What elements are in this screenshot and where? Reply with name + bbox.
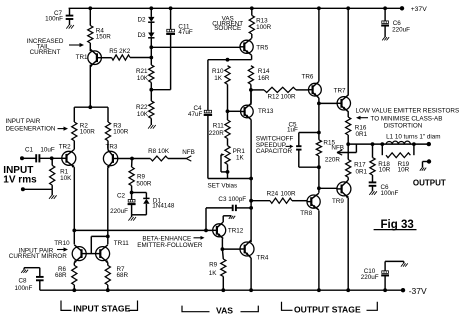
svg-text:+37V: +37V (411, 6, 428, 13)
svg-text:100R: 100R (256, 24, 272, 31)
svg-text:TR8: TR8 (300, 210, 312, 217)
svg-text:R9: R9 (209, 262, 218, 269)
svg-text:150R: 150R (96, 34, 112, 41)
svg-text:100R: 100R (113, 129, 129, 136)
svg-text:1V rms: 1V rms (3, 174, 37, 185)
svg-text:10R: 10R (398, 167, 410, 174)
svg-text:100nF: 100nF (45, 16, 63, 23)
svg-text:-37V: -37V (409, 286, 427, 296)
svg-text:100R: 100R (80, 129, 96, 136)
svg-text:10R: 10R (379, 167, 391, 174)
svg-text:DEGENERATION: DEGENERATION (6, 126, 56, 133)
svg-text:R10: R10 (212, 68, 224, 75)
svg-text:R24: R24 (267, 191, 279, 198)
svg-text:TR3: TR3 (106, 144, 118, 151)
svg-text:SOURCE: SOURCE (214, 25, 241, 32)
svg-text:1K: 1K (214, 75, 223, 82)
svg-text:CAPACITOR: CAPACITOR (256, 148, 293, 155)
svg-text:220uF: 220uF (392, 26, 410, 33)
svg-text:R12: R12 (268, 93, 280, 100)
svg-text:VAS: VAS (216, 305, 233, 315)
svg-text:SET Vbias: SET Vbias (208, 183, 238, 190)
svg-text:220uF: 220uF (110, 208, 128, 215)
svg-text:220R: 220R (325, 156, 341, 163)
svg-text:TR9: TR9 (332, 198, 344, 205)
svg-text:TR7: TR7 (334, 88, 346, 95)
svg-text:100R: 100R (281, 93, 297, 100)
svg-text:R8 10K: R8 10K (148, 148, 170, 155)
svg-text:TR10: TR10 (54, 240, 70, 247)
svg-text:L1 10 turns 1" diam: L1 10 turns 1" diam (386, 133, 440, 140)
svg-text:R14: R14 (258, 68, 270, 75)
svg-text:C3 100pF: C3 100pF (218, 196, 246, 203)
svg-text:0R1: 0R1 (356, 131, 368, 138)
svg-text:68R: 68R (117, 272, 129, 279)
svg-text:CURRENT: CURRENT (30, 49, 61, 56)
svg-text:TR11: TR11 (114, 240, 129, 247)
svg-text:47uF: 47uF (178, 29, 193, 36)
svg-text:1K: 1K (209, 270, 218, 277)
svg-text:16R: 16R (258, 75, 270, 82)
svg-text:TR1: TR1 (76, 54, 88, 61)
svg-text:OUTPUT STAGE: OUTPUT STAGE (294, 304, 361, 314)
svg-text:C1: C1 (25, 147, 34, 154)
svg-text:100R: 100R (281, 191, 297, 198)
svg-text:47uF: 47uF (188, 111, 203, 118)
svg-text:OUTPUT: OUTPUT (413, 179, 446, 188)
svg-text:R21: R21 (136, 68, 148, 75)
svg-text:10K: 10K (137, 75, 149, 82)
svg-text:TR13: TR13 (258, 108, 274, 115)
svg-text:100nF: 100nF (15, 285, 33, 292)
svg-text:D2: D2 (137, 17, 146, 24)
svg-text:TR5: TR5 (256, 44, 268, 51)
svg-text:LOW VALUE EMITTER RESISTORS: LOW VALUE EMITTER RESISTORS (356, 108, 460, 115)
svg-text:0R1: 0R1 (356, 168, 368, 175)
svg-text:100nF: 100nF (381, 190, 399, 197)
svg-text:10K: 10K (60, 175, 72, 182)
svg-text:220R: 220R (209, 130, 225, 137)
svg-text:TR6: TR6 (302, 74, 314, 81)
svg-text:68R: 68R (55, 272, 67, 279)
svg-text:TR12: TR12 (228, 228, 244, 235)
svg-text:1N4148: 1N4148 (152, 202, 175, 209)
svg-text:1uF: 1uF (287, 127, 298, 134)
svg-text:R11: R11 (213, 123, 225, 130)
svg-text:DISTORTION: DISTORTION (384, 123, 423, 130)
svg-text:TR4: TR4 (257, 254, 269, 261)
svg-text:INPUT PAIR: INPUT PAIR (6, 118, 41, 125)
svg-text:R5 2K2: R5 2K2 (109, 48, 131, 55)
svg-text:C2: C2 (117, 193, 126, 200)
svg-text:220uF: 220uF (361, 274, 379, 281)
svg-text:1K: 1K (236, 155, 245, 162)
svg-text:TO MINIMISE CLASS-AB: TO MINIMISE CLASS-AB (371, 115, 443, 122)
svg-text:500R: 500R (136, 180, 152, 187)
svg-text:C8: C8 (19, 278, 28, 285)
svg-text:TR2: TR2 (59, 143, 71, 150)
svg-text:EMITTER-FOLLOWER: EMITTER-FOLLOWER (137, 242, 203, 249)
svg-text:10uF: 10uF (40, 147, 55, 154)
svg-text:10K: 10K (137, 111, 149, 118)
svg-text:R22: R22 (136, 104, 148, 111)
svg-text:INPUT STAGE: INPUT STAGE (73, 304, 130, 314)
svg-text:NFB: NFB (182, 149, 195, 156)
svg-text:CURRENT MIRROR: CURRENT MIRROR (9, 253, 67, 260)
svg-text:D3: D3 (137, 32, 146, 39)
